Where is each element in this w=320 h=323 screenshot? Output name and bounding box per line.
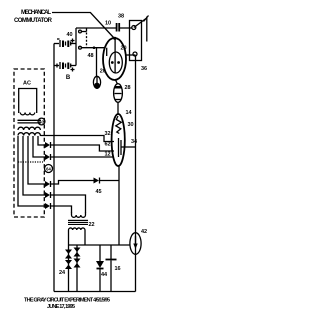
svg-text:JUNE 17, 1995: JUNE 17, 1995 [47, 304, 75, 310]
svg-text:22: 22 [88, 222, 94, 228]
svg-text:40: 40 [66, 32, 72, 38]
svg-text:64: 64 [46, 166, 51, 171]
svg-text:36: 36 [141, 66, 147, 72]
svg-text:28: 28 [124, 85, 130, 91]
svg-text:AC: AC [23, 80, 31, 86]
svg-text:30: 30 [127, 122, 133, 128]
svg-text:34: 34 [131, 139, 138, 145]
svg-text:B: B [66, 75, 71, 81]
svg-text:44: 44 [101, 272, 108, 278]
svg-text:MECHANICAL: MECHANICAL [21, 10, 51, 16]
svg-text:20: 20 [100, 69, 106, 75]
svg-text:60: 60 [39, 119, 44, 124]
svg-text:62: 62 [104, 142, 110, 148]
svg-text:10: 10 [105, 20, 111, 26]
svg-text:48: 48 [87, 53, 93, 59]
svg-text:24: 24 [59, 270, 66, 276]
svg-text:COMMUTATOR: COMMUTATOR [14, 18, 53, 24]
svg-text:16: 16 [114, 266, 120, 272]
svg-text:20: 20 [120, 46, 126, 52]
svg-text:THE GRAY CIRCUIT EXPERIMENT 4/: THE GRAY CIRCUIT EXPERIMENT 4/5/15/95 [24, 298, 110, 304]
svg-text:14: 14 [125, 110, 132, 116]
svg-text:45: 45 [95, 189, 101, 195]
svg-text:32: 32 [104, 131, 110, 137]
svg-text:38: 38 [118, 14, 124, 20]
svg-text:42: 42 [141, 229, 147, 235]
